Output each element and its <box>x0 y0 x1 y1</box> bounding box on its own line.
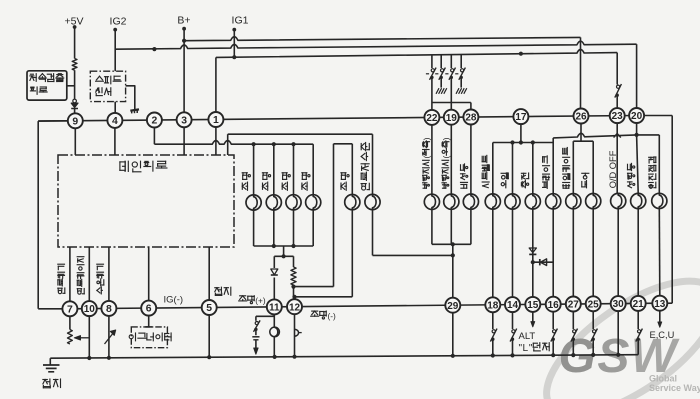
svg-text:29: 29 <box>447 301 459 312</box>
svg-text:19: 19 <box>446 113 458 124</box>
svg-text:L: L <box>523 343 529 354</box>
svg-text:7: 7 <box>67 304 73 315</box>
svg-text:9: 9 <box>72 116 78 127</box>
svg-text:13: 13 <box>654 299 666 310</box>
svg-text:(: ( <box>422 156 432 159</box>
svg-text:E,C,U: E,C,U <box>650 330 675 340</box>
svg-text:10: 10 <box>84 304 96 315</box>
svg-text:2: 2 <box>152 116 158 127</box>
svg-text:B+: B+ <box>177 15 190 27</box>
svg-text:(: ( <box>441 156 451 159</box>
svg-text:): ) <box>422 137 432 140</box>
svg-text:3: 3 <box>181 115 187 126</box>
svg-text:IG(-): IG(-) <box>164 295 184 306</box>
svg-text:8: 8 <box>106 304 112 315</box>
svg-text:": " <box>529 343 533 354</box>
svg-text:ALT: ALT <box>519 331 536 342</box>
svg-text:30: 30 <box>613 299 625 310</box>
svg-text:O/D OFF: O/D OFF <box>608 150 618 188</box>
svg-text:26: 26 <box>575 112 587 123</box>
svg-text:17: 17 <box>515 112 527 123</box>
svg-text:23: 23 <box>612 111 624 122</box>
svg-text:12: 12 <box>289 302 301 313</box>
svg-text:21: 21 <box>633 299 645 310</box>
svg-text:IG2: IG2 <box>110 16 127 28</box>
svg-text:Global: Global <box>649 374 677 384</box>
svg-text:IG1: IG1 <box>232 15 249 27</box>
svg-text:14: 14 <box>507 300 519 311</box>
svg-text:): ) <box>441 137 451 140</box>
svg-text:22: 22 <box>426 113 438 124</box>
svg-text:27: 27 <box>568 300 580 311</box>
svg-text:28: 28 <box>465 113 477 124</box>
svg-text:20: 20 <box>631 111 643 122</box>
svg-text:5: 5 <box>206 303 212 314</box>
svg-text:(+): (+) <box>255 295 266 305</box>
svg-text:Service Way: Service Way <box>649 383 700 393</box>
svg-text:16: 16 <box>548 300 560 311</box>
svg-text:11: 11 <box>269 303 280 314</box>
svg-text:6: 6 <box>146 304 152 315</box>
svg-text:1: 1 <box>213 115 219 126</box>
svg-text:(-): (-) <box>328 311 337 321</box>
svg-text:18: 18 <box>487 300 499 311</box>
svg-text:25: 25 <box>588 299 600 310</box>
svg-text:4: 4 <box>112 116 118 127</box>
svg-text:15: 15 <box>527 300 539 311</box>
